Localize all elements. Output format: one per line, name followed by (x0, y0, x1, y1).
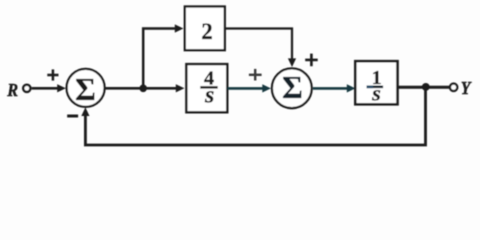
node junction (139, 85, 147, 93)
svg-text:Σ: Σ (75, 71, 96, 107)
node Y output terminal (450, 84, 457, 91)
svg-text:Σ: Σ (282, 69, 303, 105)
svg-text:2: 2 (201, 19, 213, 44)
plus sign at summer2 left input (249, 69, 262, 81)
integrator block 1/s (355, 61, 397, 104)
wire summer2 to block 1/s (313, 87, 349, 90)
wire block 4/s to summer2 (227, 87, 264, 90)
svg-text:s: s (204, 82, 214, 108)
svg-text:s: s (371, 80, 381, 105)
summer U1 (67, 69, 105, 107)
summer U2 (272, 68, 312, 108)
plus sign at summer2 top input (305, 54, 318, 67)
wire branch up to block 2 (143, 29, 176, 89)
wire input R to summer1 (32, 87, 60, 90)
wire feedback loop (85, 87, 425, 145)
integrator block 4/s (186, 64, 227, 112)
wire summer1 to node junction (105, 87, 143, 90)
wire node to block 4/s (143, 87, 178, 90)
minus sign at summer1 (67, 115, 78, 118)
wire block 2 to summer2 top (225, 29, 292, 61)
svg-text:R: R (6, 80, 18, 100)
node R input terminal (23, 85, 30, 92)
plus sign at summer1 input (47, 69, 58, 80)
node junction output (422, 83, 430, 91)
gain block 2 (185, 7, 225, 51)
wire block 1/s to output terminal (398, 86, 450, 89)
